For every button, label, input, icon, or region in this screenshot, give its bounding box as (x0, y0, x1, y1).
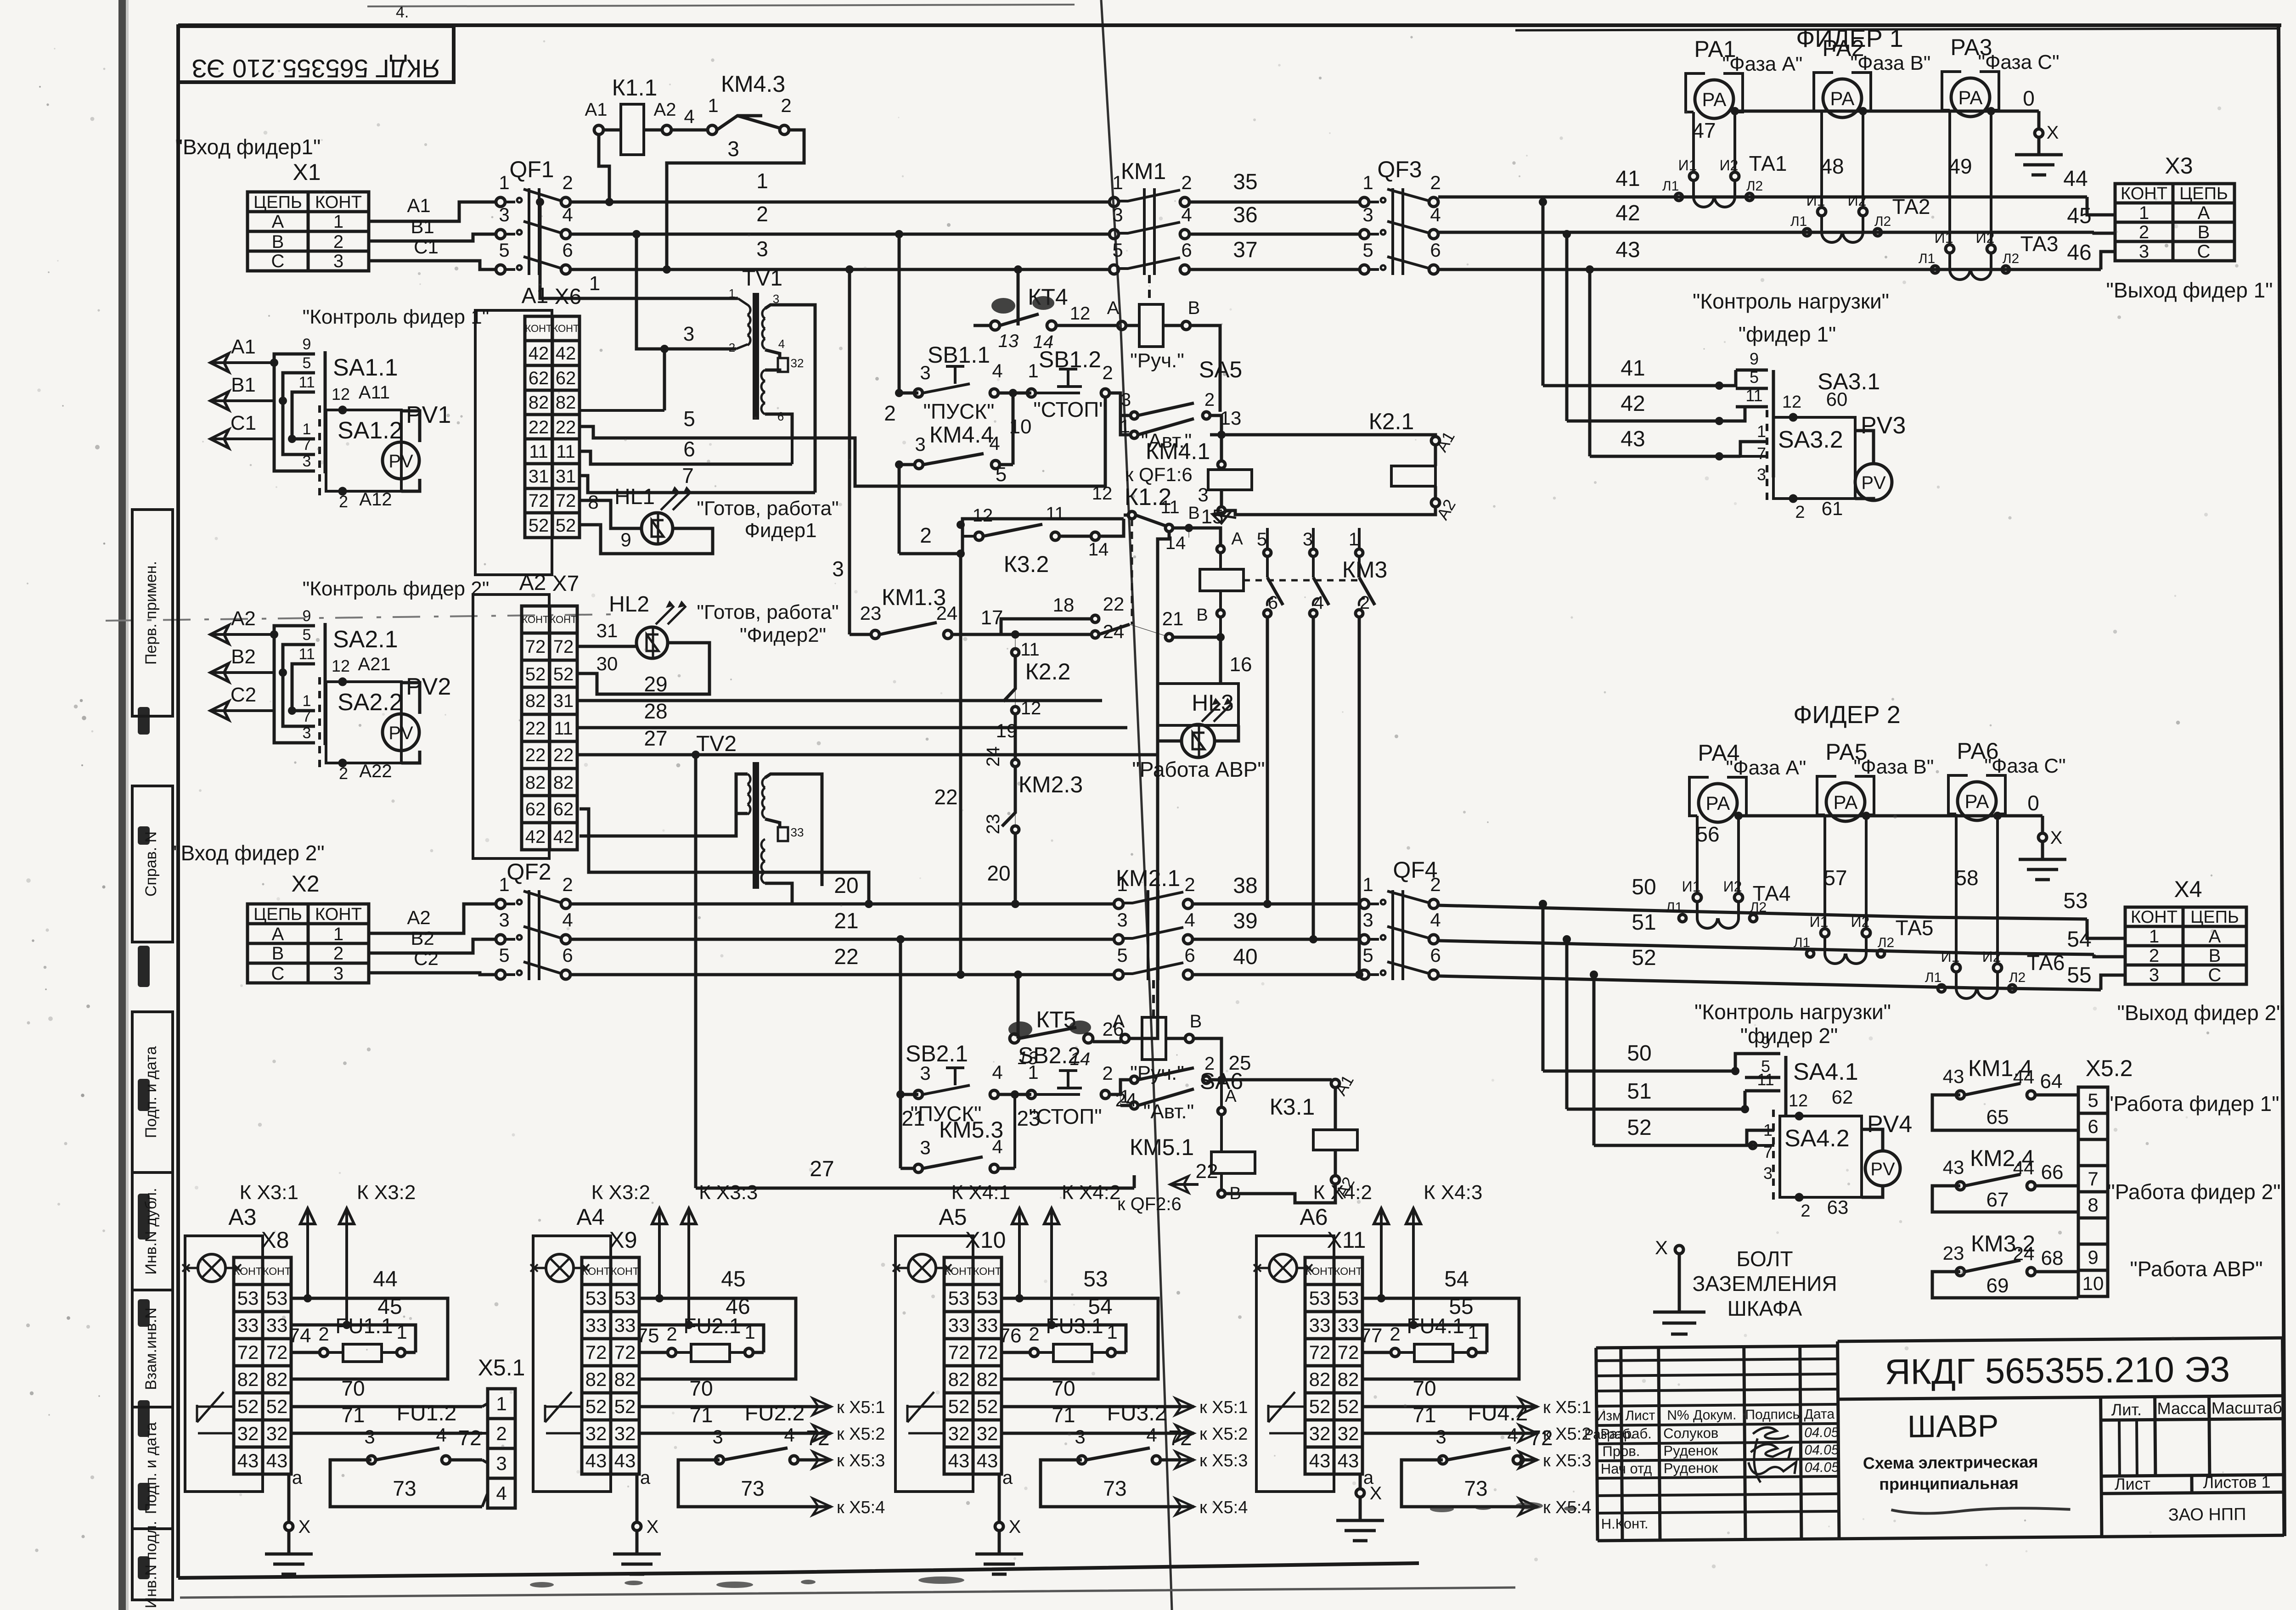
svg-text:1: 1 (1112, 172, 1123, 193)
svg-text:PV: PV (1870, 1159, 1895, 1179)
svg-text:22: 22 (834, 945, 858, 969)
svg-text:И1: И1 (1810, 914, 1829, 930)
svg-text:24: 24 (936, 602, 958, 624)
svg-text:ЗАО НПП: ЗАО НПП (2168, 1505, 2246, 1525)
svg-text:4: 4 (1507, 1424, 1518, 1446)
svg-text:4: 4 (496, 1482, 506, 1504)
svg-text:С2: С2 (231, 684, 256, 706)
svg-text:44: 44 (2013, 1157, 2035, 1178)
svg-text:3: 3 (1117, 909, 1127, 931)
svg-text:Изм: Изм (1596, 1408, 1622, 1424)
svg-text:С2: С2 (414, 948, 439, 969)
svg-text:6: 6 (1430, 239, 1441, 261)
svg-text:Л1: Л1 (1919, 251, 1935, 266)
svg-text:1: 1 (1362, 172, 1373, 193)
svg-text:PV1: PV1 (406, 402, 451, 428)
svg-text:HL1: HL1 (614, 485, 655, 509)
svg-text:52: 52 (1627, 1116, 1651, 1140)
svg-text:a: a (640, 1468, 651, 1488)
svg-text:47: 47 (1692, 118, 1716, 142)
svg-text:А1: А1 (407, 195, 430, 216)
svg-text:20: 20 (834, 874, 858, 898)
svg-text:12: 12 (332, 656, 350, 675)
svg-text:И1: И1 (1806, 192, 1825, 209)
svg-text:2: 2 (496, 1423, 506, 1444)
svg-text:И1: И1 (1678, 157, 1697, 174)
svg-text:46: 46 (2067, 241, 2091, 265)
svg-text:PA: PA (1702, 89, 1727, 110)
svg-text:КМ2.3: КМ2.3 (1019, 772, 1083, 797)
svg-text:32: 32 (977, 1423, 998, 1444)
svg-text:5: 5 (1257, 529, 1267, 550)
svg-text:К X3:3: К X3:3 (699, 1181, 758, 1204)
svg-text:ЦЕПЬ: ЦЕПЬ (253, 905, 302, 924)
svg-text:15: 15 (1201, 505, 1224, 528)
svg-text:45: 45 (721, 1267, 745, 1291)
svg-text:11: 11 (1046, 504, 1065, 524)
svg-text:PV4: PV4 (1867, 1111, 1912, 1138)
svg-text:23: 23 (983, 814, 1003, 835)
svg-text:Лист: Лист (1625, 1408, 1655, 1424)
svg-text:Взам.инв.N: Взам.инв.N (142, 1307, 160, 1390)
svg-text:1: 1 (1028, 360, 1038, 381)
svg-text:73: 73 (393, 1476, 416, 1500)
svg-text:В: В (1196, 606, 1208, 625)
svg-text:73: 73 (1464, 1476, 1487, 1500)
svg-text:В: В (1188, 504, 1199, 523)
svg-text:И1: И1 (1935, 230, 1953, 246)
svg-text:X: X (647, 1517, 659, 1537)
svg-text:3: 3 (2149, 965, 2159, 985)
svg-text:Подп. и дата: Подп. и дата (142, 1422, 160, 1514)
svg-text:А: А (272, 924, 284, 944)
svg-text:72: 72 (237, 1341, 259, 1363)
svg-text:39: 39 (1233, 909, 1257, 933)
svg-text:ТА3: ТА3 (2020, 232, 2059, 256)
svg-text:Х: Х (1655, 1237, 1668, 1258)
svg-text:к QF1:6: к QF1:6 (1125, 464, 1193, 485)
svg-text:43: 43 (977, 1450, 998, 1471)
svg-text:к X5:1: к X5:1 (1199, 1398, 1248, 1417)
svg-text:К X3:2: К X3:2 (357, 1181, 416, 1204)
svg-text:А2: А2 (654, 100, 676, 120)
svg-text:X6: X6 (555, 285, 582, 309)
svg-text:КМ5.1: КМ5.1 (1130, 1134, 1194, 1160)
svg-text:Нач отд: Нач отд (1601, 1460, 1652, 1477)
svg-text:3: 3 (499, 909, 509, 931)
svg-text:N% Докум.: N% Докум. (1667, 1408, 1736, 1423)
svg-text:1: 1 (333, 924, 343, 944)
svg-text:X11: X11 (1327, 1227, 1366, 1253)
svg-text:42: 42 (529, 343, 549, 364)
svg-text:1: 1 (1362, 874, 1373, 895)
svg-text:04.05: 04.05 (1804, 1442, 1839, 1458)
svg-text:TV2: TV2 (696, 732, 737, 756)
svg-text:5: 5 (1362, 944, 1373, 966)
svg-text:ТА1: ТА1 (1749, 151, 1787, 175)
svg-text:52: 52 (585, 1396, 607, 1417)
svg-text:6: 6 (777, 410, 784, 423)
svg-text:"Фаза В": "Фаза В" (1854, 756, 1934, 778)
svg-text:22: 22 (553, 745, 574, 765)
svg-text:7: 7 (303, 436, 311, 454)
svg-text:"Фаза А": "Фаза А" (1726, 757, 1806, 779)
svg-text:0: 0 (2027, 791, 2039, 815)
svg-text:К2.1: К2.1 (1369, 409, 1414, 434)
svg-text:К3.2: К3.2 (1004, 551, 1049, 577)
svg-text:50: 50 (1627, 1041, 1651, 1066)
svg-text:"Фаза В": "Фаза В" (1851, 52, 1931, 74)
svg-text:Инв.N дубл.: Инв.N дубл. (142, 1188, 160, 1274)
svg-text:11: 11 (1745, 386, 1762, 405)
svg-text:12: 12 (1070, 303, 1091, 324)
svg-text:1: 1 (2149, 926, 2159, 947)
svg-text:26: 26 (1103, 1018, 1124, 1040)
svg-text:1: 1 (396, 1321, 407, 1343)
svg-text:82: 82 (1309, 1369, 1331, 1390)
svg-text:22: 22 (1103, 593, 1125, 615)
svg-text:к X5:1: к X5:1 (837, 1398, 885, 1417)
svg-text:04.05: 04.05 (1805, 1460, 1840, 1475)
svg-text:75: 75 (637, 1324, 659, 1347)
svg-text:14: 14 (1088, 539, 1109, 560)
svg-text:18: 18 (1053, 594, 1075, 616)
svg-text:2: 2 (920, 523, 932, 547)
svg-text:С: С (2208, 965, 2222, 985)
svg-text:12: 12 (1782, 393, 1801, 412)
svg-text:82: 82 (614, 1369, 636, 1390)
svg-text:КОНТ: КОНТ (525, 323, 552, 334)
svg-text:А2: А2 (407, 907, 430, 928)
svg-text:3: 3 (1757, 465, 1766, 484)
svg-text:ФИДЕР 2: ФИДЕР 2 (1793, 701, 1901, 729)
svg-text:5: 5 (303, 354, 311, 372)
svg-text:PA: PA (1958, 87, 1983, 108)
svg-text:Дата: Дата (1804, 1407, 1835, 1422)
svg-text:33: 33 (237, 1314, 259, 1336)
svg-text:SB2.1: SB2.1 (906, 1041, 968, 1066)
svg-text:72: 72 (266, 1341, 288, 1363)
svg-text:PV: PV (388, 451, 413, 471)
svg-text:23: 23 (1017, 1106, 1040, 1130)
svg-text:Н.Конт.: Н.Конт. (1601, 1515, 1649, 1532)
svg-text:9: 9 (1750, 349, 1759, 368)
svg-text:73: 73 (1103, 1476, 1126, 1500)
svg-text:2: 2 (1801, 1201, 1810, 1221)
svg-text:4: 4 (989, 432, 1000, 454)
svg-text:51: 51 (1627, 1079, 1651, 1104)
svg-text:X9: X9 (609, 1227, 637, 1253)
svg-text:12: 12 (973, 505, 993, 526)
svg-text:42: 42 (556, 343, 576, 364)
svg-text:"СТОП": "СТОП" (1033, 398, 1106, 421)
svg-text:3: 3 (333, 964, 343, 984)
svg-text:2: 2 (318, 1323, 329, 1345)
svg-text:2: 2 (1795, 503, 1805, 522)
svg-text:66: 66 (2041, 1161, 2064, 1184)
svg-text:4: 4 (778, 337, 785, 351)
svg-text:PA: PA (1965, 791, 1989, 812)
svg-text:А11: А11 (359, 382, 390, 403)
svg-text:3: 3 (1362, 909, 1373, 931)
svg-text:SA5: SA5 (1199, 357, 1243, 382)
svg-text:33: 33 (977, 1314, 998, 1336)
svg-text:Инв.N подл.: Инв.N подл. (142, 1521, 160, 1608)
svg-text:a: a (292, 1468, 303, 1488)
svg-text:"Работа фидер 2": "Работа фидер 2" (2107, 1180, 2280, 1204)
svg-text:А: А (1231, 529, 1243, 549)
svg-text:И2: И2 (1720, 157, 1739, 174)
svg-text:В1: В1 (411, 216, 434, 237)
svg-text:6: 6 (1184, 944, 1195, 966)
svg-text:3: 3 (1198, 484, 1208, 505)
svg-text:КМ3: КМ3 (1342, 557, 1388, 583)
svg-text:2: 2 (1430, 874, 1441, 895)
svg-text:Подп. и дата: Подп. и дата (142, 1046, 160, 1138)
svg-text:4: 4 (1146, 1424, 1157, 1446)
svg-text:FU2.2: FU2.2 (745, 1401, 805, 1425)
svg-text:62: 62 (553, 799, 574, 819)
svg-text:11: 11 (529, 442, 548, 462)
svg-text:82: 82 (525, 773, 546, 793)
svg-text:a: a (1363, 1468, 1374, 1488)
svg-text:"фидер 2": "фидер 2" (1740, 1024, 1838, 1048)
svg-text:38: 38 (1233, 874, 1257, 898)
svg-text:КОНТ: КОНТ (315, 193, 362, 212)
svg-text:43: 43 (1943, 1066, 1964, 1087)
svg-text:С: С (2197, 241, 2211, 262)
svg-text:24: 24 (983, 746, 1003, 767)
svg-text:2: 2 (1029, 1323, 1039, 1345)
svg-text:82: 82 (948, 1369, 970, 1390)
svg-text:33: 33 (1309, 1314, 1331, 1336)
svg-text:1: 1 (1120, 1087, 1130, 1107)
svg-text:Л2: Л2 (1746, 179, 1763, 194)
svg-text:Л2: Л2 (2003, 251, 2019, 266)
svg-text:ЦЕПЬ: ЦЕПЬ (2190, 908, 2239, 927)
svg-text:53: 53 (948, 1287, 970, 1309)
svg-text:12: 12 (332, 385, 350, 404)
svg-text:3: 3 (756, 237, 768, 261)
svg-text:19: 19 (996, 720, 1018, 741)
svg-text:6: 6 (1181, 239, 1192, 261)
svg-text:3: 3 (333, 251, 343, 271)
svg-text:Справ. N: Справ. N (142, 831, 160, 897)
svg-text:БОЛТ: БОЛТ (1736, 1247, 1793, 1271)
svg-text:82: 82 (237, 1369, 259, 1390)
svg-text:31: 31 (597, 620, 618, 641)
svg-text:82: 82 (585, 1369, 607, 1390)
svg-text:5: 5 (2088, 1089, 2098, 1111)
svg-text:44: 44 (2063, 167, 2088, 191)
svg-text:SA1.1: SA1.1 (333, 354, 398, 381)
svg-text:принципиальная: принципиальная (1879, 1474, 2019, 1493)
svg-text:1: 1 (303, 421, 311, 438)
svg-text:В: В (272, 943, 284, 964)
svg-text:2: 2 (884, 401, 896, 425)
svg-text:32: 32 (1309, 1423, 1331, 1444)
svg-text:К X4:3: К X4:3 (1424, 1181, 1482, 1204)
svg-text:7: 7 (2088, 1168, 2098, 1189)
svg-text:к X5:2: к X5:2 (837, 1425, 885, 1444)
svg-text:56: 56 (1696, 822, 1719, 846)
svg-text:70: 70 (341, 1376, 365, 1400)
svg-text:3: 3 (1435, 1426, 1446, 1447)
svg-text:X: X (298, 1517, 311, 1537)
svg-text:9: 9 (303, 607, 311, 625)
svg-text:ЦЕПЬ: ЦЕПЬ (2179, 184, 2228, 203)
svg-text:41: 41 (1615, 167, 1640, 191)
svg-text:3: 3 (727, 137, 739, 161)
svg-text:К1.1: К1.1 (612, 75, 658, 101)
svg-text:43: 43 (948, 1450, 970, 1471)
svg-text:42: 42 (553, 827, 574, 847)
svg-text:ЯКДГ 565355.210 Э3: ЯКДГ 565355.210 Э3 (1885, 1349, 2230, 1392)
svg-text:32: 32 (614, 1423, 636, 1444)
svg-text:5: 5 (1750, 368, 1759, 387)
svg-text:40: 40 (1233, 945, 1257, 969)
svg-text:71: 71 (1412, 1403, 1436, 1427)
svg-text:33: 33 (585, 1314, 607, 1336)
svg-text:11: 11 (554, 718, 573, 739)
svg-text:43: 43 (614, 1450, 636, 1471)
svg-text:65: 65 (1986, 1106, 2009, 1128)
svg-text:А: А (2209, 926, 2221, 947)
svg-text:Л2: Л2 (1878, 935, 1894, 950)
svg-text:1: 1 (1349, 529, 1359, 550)
svg-text:ТА2: ТА2 (1892, 195, 1930, 219)
svg-text:Разраб.: Разраб. (1600, 1425, 1652, 1442)
svg-text:2: 2 (2139, 222, 2149, 242)
svg-text:КОНТ: КОНТ (552, 323, 579, 334)
svg-text:3: 3 (920, 362, 930, 383)
svg-text:X5.2: X5.2 (2086, 1055, 2133, 1081)
svg-text:52: 52 (237, 1396, 259, 1417)
svg-text:82: 82 (525, 691, 546, 711)
svg-text:1: 1 (333, 212, 343, 232)
svg-text:"Фидер2": "Фидер2" (740, 624, 826, 646)
svg-text:"Фаза С": "Фаза С" (1984, 755, 2065, 777)
svg-text:"Фаза А": "Фаза А" (1722, 53, 1803, 75)
svg-text:52: 52 (525, 664, 546, 684)
svg-text:4: 4 (436, 1424, 446, 1446)
svg-text:К3.1: К3.1 (1270, 1094, 1315, 1120)
svg-text:КОНТ: КОНТ (2121, 184, 2167, 203)
svg-text:И1: И1 (1941, 948, 1960, 965)
svg-text:22: 22 (556, 417, 576, 438)
svg-text:82: 82 (553, 773, 574, 793)
svg-text:к X5:2: к X5:2 (1199, 1425, 1248, 1444)
svg-text:23: 23 (1943, 1242, 1964, 1264)
svg-text:10: 10 (2082, 1273, 2104, 1294)
svg-text:к X5:3: к X5:3 (1543, 1451, 1591, 1470)
svg-text:6: 6 (683, 437, 695, 461)
svg-text:Масса: Масса (2157, 1399, 2206, 1418)
svg-text:QF2: QF2 (506, 859, 551, 885)
svg-text:72: 72 (529, 491, 549, 511)
svg-text:44: 44 (373, 1267, 397, 1291)
svg-text:Л1: Л1 (1666, 900, 1683, 915)
svg-text:42: 42 (525, 827, 546, 847)
svg-text:А21: А21 (358, 654, 390, 674)
svg-text:62: 62 (556, 368, 576, 388)
svg-text:"Выход фидер 1": "Выход фидер 1" (2106, 278, 2273, 302)
svg-text:73: 73 (741, 1476, 764, 1500)
svg-text:2: 2 (1204, 390, 1215, 410)
svg-text:PA: PA (1706, 792, 1730, 814)
svg-text:71: 71 (1052, 1403, 1075, 1427)
svg-text:X: X (2047, 123, 2059, 143)
svg-text:"Контроль фидер 1": "Контроль фидер 1" (303, 306, 490, 328)
svg-text:3: 3 (1763, 1164, 1773, 1183)
svg-text:82: 82 (266, 1369, 288, 1390)
svg-text:TV1: TV1 (742, 266, 782, 291)
svg-text:"Вход фидер1": "Вход фидер1" (175, 135, 321, 159)
svg-text:3: 3 (683, 323, 694, 345)
svg-text:В: В (1188, 298, 1200, 318)
svg-text:3: 3 (499, 204, 509, 225)
svg-text:53: 53 (2063, 889, 2088, 913)
svg-text:3: 3 (364, 1426, 375, 1447)
svg-text:52: 52 (948, 1396, 970, 1417)
svg-text:КОНТ: КОНТ (1334, 1265, 1362, 1277)
svg-text:72: 72 (553, 637, 574, 657)
svg-text:3: 3 (1075, 1426, 1085, 1447)
svg-text:"Руч.": "Руч." (1130, 349, 1184, 372)
svg-text:SA4.1: SA4.1 (1793, 1059, 1858, 1085)
svg-text:2: 2 (333, 943, 343, 964)
svg-text:63: 63 (1827, 1196, 1849, 1218)
svg-text:"Выход фидер 2": "Выход фидер 2" (2117, 1001, 2284, 1025)
svg-text:К X4:1: К X4:1 (951, 1181, 1010, 1204)
svg-text:42: 42 (1621, 392, 1645, 416)
svg-text:1: 1 (1117, 874, 1127, 895)
svg-text:43: 43 (1338, 1450, 1359, 1471)
svg-text:2: 2 (1184, 874, 1195, 895)
svg-text:2: 2 (1430, 172, 1441, 193)
svg-text:Л1: Л1 (1794, 935, 1810, 950)
svg-text:21: 21 (834, 909, 858, 933)
svg-text:82: 82 (529, 393, 549, 413)
svg-text:21: 21 (1162, 608, 1184, 629)
svg-text:4: 4 (992, 1136, 1002, 1157)
svg-text:6: 6 (562, 944, 573, 966)
svg-text:9: 9 (303, 336, 311, 353)
svg-text:6: 6 (1430, 944, 1441, 966)
svg-text:72: 72 (1168, 1426, 1192, 1450)
svg-text:52: 52 (614, 1396, 636, 1417)
svg-text:В2: В2 (411, 927, 434, 949)
svg-text:7: 7 (682, 464, 694, 488)
svg-text:4: 4 (1314, 593, 1324, 613)
svg-text:3: 3 (1362, 204, 1373, 225)
svg-text:Масштаб: Масштаб (2212, 1398, 2282, 1417)
svg-text:4: 4 (1430, 204, 1441, 225)
svg-text:1: 1 (589, 272, 600, 295)
svg-text:А: А (2198, 203, 2210, 223)
svg-text:53: 53 (614, 1287, 636, 1309)
svg-text:1: 1 (499, 874, 509, 895)
svg-text:33: 33 (948, 1314, 970, 1336)
svg-text:82: 82 (1338, 1369, 1359, 1390)
svg-text:X3: X3 (2165, 153, 2193, 179)
svg-text:SA4.2: SA4.2 (1784, 1125, 1850, 1152)
svg-text:72: 72 (614, 1341, 636, 1363)
svg-text:ТА4: ТА4 (1753, 881, 1791, 905)
svg-text:9: 9 (2088, 1246, 2098, 1268)
svg-text:76: 76 (999, 1324, 1022, 1347)
svg-text:7: 7 (1757, 444, 1766, 463)
